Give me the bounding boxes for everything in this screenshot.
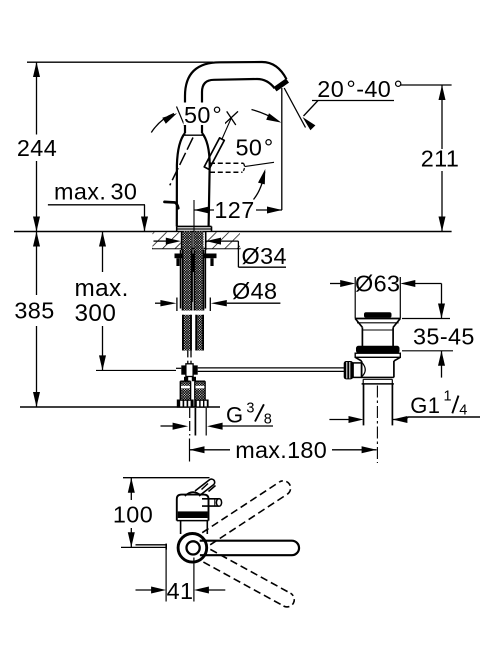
- svg-text:G: G: [226, 403, 243, 428]
- svg-text:Ø34: Ø34: [242, 243, 287, 269]
- svg-text:244: 244: [17, 135, 57, 161]
- svg-text:50°: 50°: [184, 102, 222, 128]
- svg-text:20°-40°: 20°-40°: [317, 76, 403, 102]
- svg-text:100: 100: [113, 501, 153, 527]
- svg-text:1: 1: [444, 389, 452, 405]
- svg-text:Ø48: Ø48: [232, 278, 277, 304]
- svg-text:Ø63: Ø63: [355, 271, 400, 297]
- svg-text:50°: 50°: [236, 135, 274, 161]
- svg-text:30: 30: [111, 179, 138, 205]
- svg-text:max.: max.: [75, 275, 129, 302]
- svg-text:300: 300: [75, 300, 117, 327]
- svg-text:127: 127: [214, 197, 254, 223]
- svg-text:211: 211: [421, 146, 460, 172]
- svg-text:max.180: max.180: [235, 437, 327, 463]
- svg-text:3: 3: [246, 400, 254, 416]
- svg-text:8: 8: [264, 411, 272, 427]
- svg-text:G1: G1: [410, 393, 440, 418]
- svg-text:max.: max.: [54, 179, 106, 205]
- svg-text:35-45: 35-45: [413, 324, 475, 350]
- svg-text:41: 41: [167, 578, 194, 604]
- svg-text:4: 4: [459, 402, 467, 418]
- svg-text:385: 385: [14, 298, 54, 324]
